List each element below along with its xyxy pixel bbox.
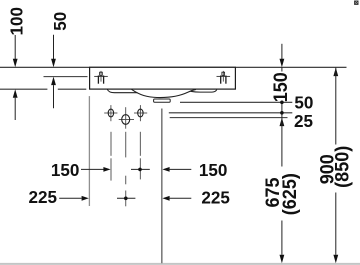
- tap hole symbol right: [217, 71, 231, 84]
- label 900 (850) rotated with white bg: [318, 145, 354, 193]
- row 225: right leader with arrow at centerline: [162, 196, 169, 201]
- dimension line 900(850) vertical: [333, 68, 338, 77]
- fixing hole height reference line L2: [169, 112, 292, 114]
- tap hole symbol left: [94, 71, 108, 84]
- basin bottom edge extension line (left, with gap at arrow shaft): [0, 88, 47, 90]
- svg-text:(850): (850): [331, 146, 353, 188]
- svg-text:225: 225: [201, 187, 230, 208]
- lower reference line L3: [170, 117, 288, 119]
- svg-text:50: 50: [50, 12, 71, 31]
- tiny mark top-right corner: [355, 1, 358, 4]
- S1 extension dashes down: [110, 132, 112, 181]
- wall top reference line: [0, 66, 347, 68]
- svg-text:100: 100: [6, 7, 27, 36]
- siphon bottom reference line L1: [180, 101, 292, 103]
- S3 extension dashes down: [139, 132, 141, 180]
- dimension 50 lower arrow: [53, 85, 55, 108]
- fixing hole symbol left S1: [104, 105, 117, 121]
- svg-text:225: 225: [29, 187, 58, 208]
- svg-text:150: 150: [269, 72, 291, 102]
- label 675 (625) rotated with white bg: [264, 167, 300, 221]
- arrow up at L3: [280, 118, 285, 127]
- basin left edge extension line down: [88, 96, 90, 206]
- row 150: right leader with arrow at centerline: [162, 167, 169, 172]
- bowl outline curve: [132, 89, 197, 97]
- tap-hole height reference line: [44, 76, 88, 78]
- S2 extension dashes down: [125, 132, 127, 207]
- dimension 100 upper arrow: [14, 35, 16, 60]
- row 225: segment through dot at S2: [117, 197, 135, 199]
- svg-text:(625): (625): [278, 173, 300, 215]
- junction dot on L2: [280, 111, 284, 115]
- inner rim left edge: [107, 89, 137, 92]
- bottom dim row 150: left leader with arrow: [81, 168, 104, 170]
- dimension 100 lower arrow: [14, 98, 16, 120]
- svg-text:25: 25: [294, 111, 313, 132]
- floor line: [0, 263, 360, 265]
- vertical center line of basin: [161, 109, 163, 264]
- bottom dim row 225: left leader with arrow: [59, 197, 81, 199]
- inner rim right lens: [191, 90, 217, 93]
- dimension line 150 vertical (right of basin): [281, 44, 283, 60]
- row 150: segment through dot at S3: [131, 168, 150, 170]
- fixing hole symbol right S3: [134, 105, 147, 121]
- washbasin body rectangle: [90, 67, 236, 89]
- fixing hole symbol center S2: [119, 107, 134, 129]
- svg-text:150: 150: [199, 160, 228, 181]
- label 150 rotated with white bg: [273, 72, 290, 101]
- svg-text:150: 150: [51, 159, 80, 180]
- drain flange rectangle: [154, 99, 171, 102]
- dimension 50 upper arrow: [53, 35, 55, 59]
- junction dot on L1: [280, 101, 284, 105]
- svg-text:50: 50: [294, 92, 313, 113]
- dimension line 675(625) vertical: [281, 118, 283, 255]
